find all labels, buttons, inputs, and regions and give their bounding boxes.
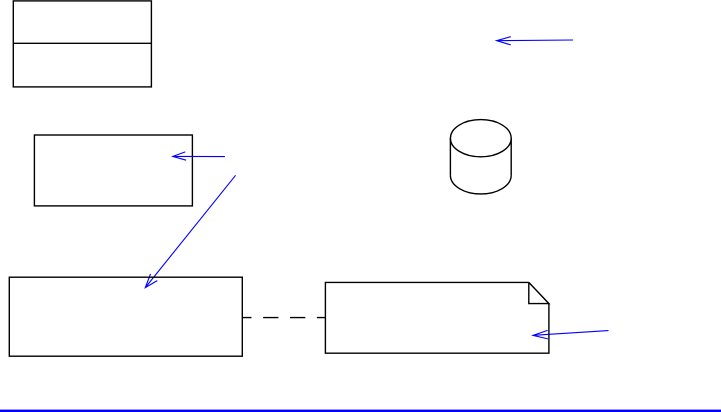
rectangle R2 (middle left) <box>34 135 192 206</box>
blue arrow A3 (long diagonal, pointing down-left) <box>145 175 235 287</box>
cylinder (database symbol) <box>450 120 511 194</box>
blue arrow A4 (bottom right, pointing left into note) <box>533 330 609 339</box>
note shape (rectangle with folded corner) <box>325 282 549 353</box>
rectangle R3 (bottom left) <box>9 277 242 356</box>
blue arrow A1 (top right, pointing left) <box>497 37 573 45</box>
blue arrow A2 (small, pointing left into rectangle R2) <box>173 152 225 160</box>
bottom blue bar <box>0 410 721 412</box>
dashed connector line <box>242 317 325 319</box>
class box (divided rectangle) top-left <box>13 1 151 87</box>
